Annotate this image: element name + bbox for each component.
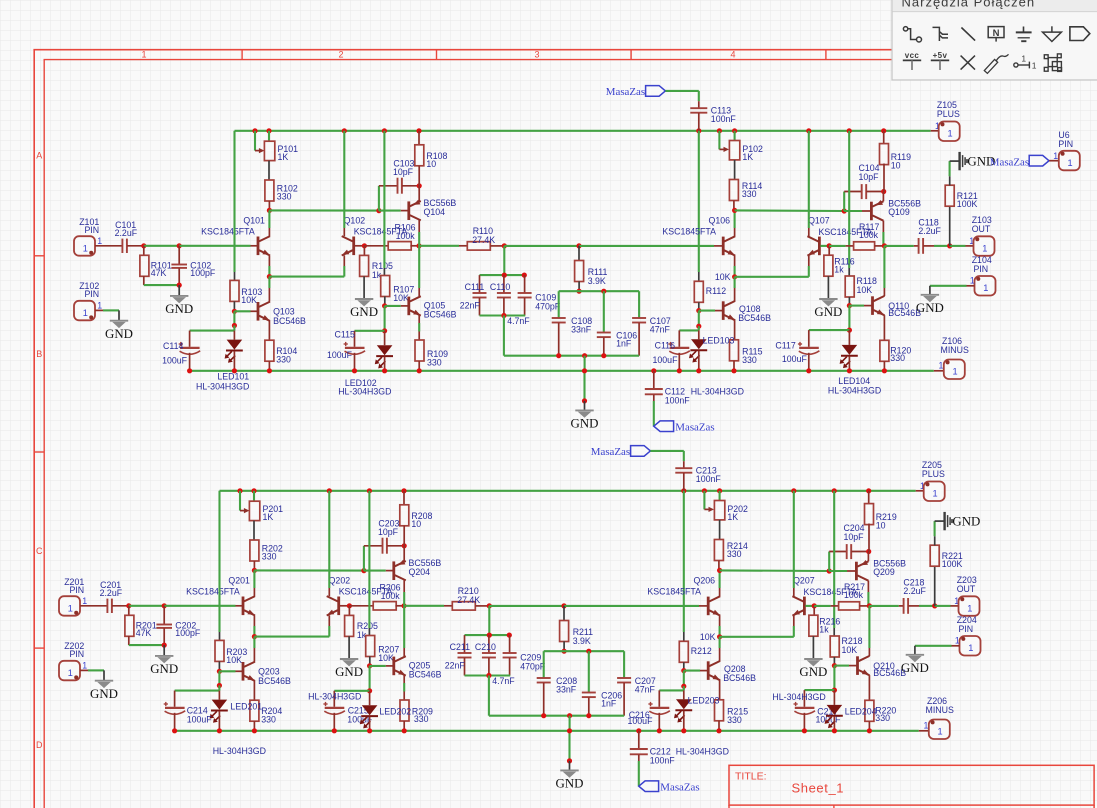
node base drive junction [252, 568, 257, 573]
svg-text:BC546B: BC546B [723, 673, 756, 683]
toolbar icon pin 1 [1014, 62, 1030, 69]
wire [403, 546, 405, 561]
resistor R121 100K [949, 206, 951, 246]
svg-text:4: 4 [730, 50, 735, 60]
capacitor C101 2.2uF [121, 239, 123, 253]
capacitor C117 100uF [808, 330, 810, 347]
wire [735, 276, 809, 278]
wire [967, 285, 975, 287]
node emitters junction [252, 634, 257, 639]
svg-text:GND: GND [916, 301, 944, 315]
potentiometer P202 1K [703, 491, 705, 510]
svg-text:C: C [36, 546, 43, 556]
net label MasaZas (bottom) [654, 421, 674, 432]
capacitor C216 100uF [658, 690, 660, 706]
toolbar icon wire [903, 27, 921, 42]
svg-text:1k: 1k [834, 265, 844, 275]
svg-text:BC546B: BC546B [738, 313, 771, 323]
wire [503, 246, 505, 275]
capacitor C208 33nF [543, 651, 545, 678]
svg-text:Q102: Q102 [344, 215, 366, 225]
svg-text:1: 1 [932, 489, 937, 499]
svg-text:BC546B: BC546B [258, 676, 291, 686]
svg-text:10pF: 10pF [393, 167, 414, 177]
resistor R102 330 [265, 180, 274, 201]
svg-text:2.2uF: 2.2uF [100, 588, 123, 598]
resistor R101 47K [143, 246, 145, 256]
svg-text:27.4K: 27.4K [472, 235, 495, 245]
svg-text:330: 330 [742, 355, 757, 365]
wire [867, 552, 869, 562]
svg-text:33nF: 33nF [571, 325, 592, 335]
svg-text:3.9K: 3.9K [573, 636, 591, 646]
capacitor C212 100nF [638, 731, 640, 749]
capacitor C206 1nF [588, 651, 590, 692]
wire [253, 521, 255, 541]
capacitor C118 2.2uF [884, 245, 913, 247]
svg-text:HL-304H3GD: HL-304H3GD [213, 746, 266, 756]
node input junction [141, 243, 146, 248]
connector Z202 PIN [59, 661, 80, 681]
wire [129, 605, 164, 607]
svg-text:1: 1 [1068, 158, 1073, 168]
node filter junction A [502, 243, 507, 248]
node output junction [947, 243, 952, 248]
svg-text:MasaZas: MasaZas [675, 422, 714, 434]
svg-text:1: 1 [955, 636, 960, 646]
node Q109 collector junction [867, 603, 872, 608]
wire LED101 anode [233, 311, 235, 325]
node Q108 base junction [696, 308, 701, 313]
wire [719, 588, 721, 596]
wire GND bottom rail [190, 370, 934, 372]
wire VCC top rail [220, 490, 916, 492]
wire VCC top rail [235, 130, 931, 132]
resistor R211 3.9K [563, 606, 565, 621]
svg-text:GND: GND [571, 417, 599, 431]
svg-text:330: 330 [261, 715, 276, 725]
wire [236, 605, 243, 607]
transistor Q102 KSC1845FTA [352, 237, 355, 256]
wire [489, 605, 564, 607]
wire [952, 645, 960, 647]
toolbar icon earth ground [1016, 27, 1032, 42]
wire [218, 491, 220, 632]
node Q110 base junction [832, 663, 837, 668]
wire [504, 245, 579, 247]
transistor Q105 BC546B [407, 297, 410, 316]
resistor R218 10K [830, 636, 839, 657]
capacitor C203 10pF [363, 546, 365, 571]
transistor Q202 KSC1845FTA [337, 597, 340, 616]
svg-text:PIN: PIN [1058, 139, 1073, 149]
resistor R117 100k [829, 245, 845, 247]
ground [355, 298, 373, 300]
svg-text:Q109: Q109 [888, 207, 910, 217]
svg-text:1K: 1K [278, 152, 289, 162]
svg-text:GND: GND [90, 687, 118, 701]
wire [269, 209, 379, 211]
svg-text:1nF: 1nF [601, 699, 617, 709]
wire [175, 690, 220, 692]
node collector load junction [416, 243, 421, 248]
ground [804, 658, 822, 660]
svg-text:1nF: 1nF [616, 339, 632, 349]
svg-text:Q104: Q104 [424, 207, 446, 217]
svg-text:4.7nF: 4.7nF [507, 316, 530, 326]
svg-text:27.4K: 27.4K [457, 595, 480, 605]
wire [355, 245, 362, 247]
capacitor C102 100pF [178, 246, 180, 264]
wire [659, 689, 684, 691]
wire [340, 605, 347, 607]
svg-text:330: 330 [277, 192, 292, 202]
ground [914, 646, 916, 655]
svg-text:10K: 10K [241, 295, 257, 305]
wire [809, 329, 850, 331]
svg-text:470pF: 470pF [520, 662, 546, 672]
ground [178, 285, 180, 296]
svg-text:1: 1 [83, 308, 88, 318]
svg-text:C210: C210 [475, 642, 496, 652]
wire [144, 245, 179, 247]
svg-text:1: 1 [1053, 151, 1058, 161]
svg-text:100K: 100K [957, 199, 978, 209]
svg-text:C115: C115 [335, 330, 355, 340]
resistor R106 100k [364, 245, 389, 247]
wire [80, 669, 88, 671]
capacitor C113 100nF [698, 101, 700, 108]
svg-text:HL-304H3GD: HL-304H3GD [338, 387, 391, 397]
ground (rotated) [935, 520, 944, 522]
svg-text:1: 1 [97, 301, 102, 311]
wire [735, 209, 845, 212]
capacitor C202 100pF [163, 606, 165, 624]
wire [369, 666, 371, 691]
svg-text:GND: GND [901, 661, 929, 675]
svg-text:Q101: Q101 [243, 215, 265, 225]
svg-text:1: 1 [982, 243, 987, 253]
wire [638, 761, 640, 786]
svg-text:MINUS: MINUS [941, 345, 969, 355]
svg-text:22nF: 22nF [460, 301, 481, 311]
ground [568, 731, 570, 761]
wire [190, 330, 235, 332]
svg-text:100k: 100k [396, 231, 416, 241]
resistor R210 27.4K [404, 605, 444, 607]
svg-text:22nF: 22nF [445, 661, 466, 671]
svg-text:GND: GND [165, 302, 193, 316]
svg-text:PIN: PIN [70, 649, 85, 659]
svg-text:2.2uF: 2.2uF [903, 586, 926, 596]
svg-text:BC546B: BC546B [409, 670, 442, 680]
svg-text:LED203: LED203 [688, 695, 720, 705]
net label MasaZas (top) [646, 86, 666, 97]
node emitters junction [267, 274, 272, 279]
wire [805, 605, 814, 607]
svg-text:1: 1 [82, 596, 87, 606]
resistor R110 27.4K [419, 245, 459, 247]
svg-text:C110: C110 [490, 282, 510, 292]
wire [95, 309, 103, 311]
svg-text:BC546B: BC546B [273, 316, 306, 326]
connector Z205 PLUS [916, 490, 924, 492]
wire [95, 245, 122, 247]
toolbar icon no-connect X [961, 56, 975, 70]
ground [340, 658, 358, 660]
svg-text:100K: 100K [942, 559, 963, 569]
svg-text:330: 330 [414, 714, 429, 724]
svg-text:C117: C117 [775, 341, 795, 351]
node filter junction B [562, 649, 567, 654]
svg-text:GND: GND [150, 662, 178, 676]
svg-text:100k: 100k [844, 590, 864, 600]
svg-text:2.2uF: 2.2uF [918, 226, 941, 236]
svg-text:LED103: LED103 [703, 335, 735, 345]
wire [465, 674, 511, 676]
svg-text:1: 1 [83, 243, 88, 253]
wire LED103 anode [683, 671, 685, 687]
transistor Q103 BC546B [257, 302, 260, 321]
ground [163, 645, 165, 656]
resistor R221 100K [934, 566, 936, 606]
toolbar icon probe pen [984, 54, 1008, 73]
connector Z104 PIN [975, 276, 996, 296]
capacitor C114 100uF [189, 331, 191, 347]
wire [268, 161, 270, 181]
svg-text:470pF: 470pF [535, 302, 561, 312]
resistor R205 1k [348, 606, 350, 616]
svg-text:100nF: 100nF [696, 474, 722, 484]
capacitor C103 10pF [378, 186, 380, 211]
transistor Q201 KSC1845FTA [242, 597, 245, 616]
svg-text:1: 1 [970, 276, 975, 286]
wire [127, 245, 144, 247]
svg-text:OUT: OUT [972, 224, 991, 234]
svg-text:D: D [36, 740, 43, 750]
svg-text:1K: 1K [742, 152, 753, 162]
svg-text:PLUS: PLUS [937, 109, 960, 119]
svg-text:10K: 10K [378, 653, 394, 663]
svg-text:1: 1 [968, 643, 973, 653]
diode LED101 HL-304H3GD [233, 331, 235, 340]
resistor R120 330 [880, 340, 889, 361]
resistor R207 10K [366, 636, 375, 657]
svg-text:OUT: OUT [957, 584, 976, 594]
svg-text:100k: 100k [859, 230, 879, 240]
toolbar icon supply arrow [1043, 26, 1062, 41]
resistor R112 10K [694, 281, 703, 302]
svg-text:Q201: Q201 [228, 575, 250, 585]
svg-text:MasaZas: MasaZas [591, 446, 630, 458]
svg-text:4.7nF: 4.7nF [492, 676, 515, 686]
svg-text:100nF: 100nF [711, 114, 737, 124]
resistor R209 330 [403, 692, 405, 701]
resistor R107 10K [381, 276, 390, 297]
toolbar icon flag [1070, 27, 1090, 41]
wire [698, 131, 700, 246]
svg-text:GND: GND [105, 327, 133, 341]
wire [665, 90, 698, 92]
resistor R111 3.9K [578, 246, 580, 261]
svg-text:MasaZas: MasaZas [606, 86, 645, 98]
svg-text:vcc: vcc [905, 51, 920, 60]
resistor R116 1k [828, 246, 830, 256]
wire [251, 245, 258, 247]
wire GND bottom rail [175, 730, 919, 732]
connector U6 PIN [1049, 160, 1059, 162]
toolbar panel Narzedzia Polaczen [892, 0, 1097, 80]
resistor R119 10 [883, 131, 885, 145]
wire [734, 160, 736, 180]
connector Z101 PIN [74, 236, 95, 256]
svg-text:B: B [36, 349, 42, 359]
wire LED101 anode [218, 671, 220, 685]
wire [504, 355, 639, 357]
resistor R202 330 [250, 540, 259, 561]
wire [699, 310, 715, 312]
svg-text:2.2uF: 2.2uF [115, 228, 138, 238]
svg-text:10pF: 10pF [859, 172, 880, 182]
potentiometer P102 1K [718, 131, 720, 150]
capacitor C116 100uF [678, 330, 680, 346]
svg-text:PIN: PIN [974, 264, 989, 274]
wire [684, 670, 700, 672]
resistor R103 10K [230, 280, 239, 301]
wire [804, 689, 834, 691]
node right emitters junction [717, 634, 722, 639]
svg-text:Q107: Q107 [808, 215, 830, 225]
svg-text:GND: GND [556, 777, 584, 791]
connector Z103 OUT [950, 245, 966, 247]
svg-text:10pF: 10pF [844, 532, 865, 542]
resistor R212 10K [679, 641, 688, 662]
svg-text:10K: 10K [715, 272, 731, 282]
svg-text:1: 1 [82, 661, 87, 671]
resistor R115 330 [730, 340, 739, 361]
diode LED104 HL-304H3GD [848, 330, 850, 345]
svg-text:100nF: 100nF [665, 395, 691, 405]
node Q105 base junction [382, 303, 387, 308]
svg-text:TITLE:: TITLE: [735, 770, 767, 782]
svg-text:1: 1 [967, 603, 972, 613]
connector Z206 MINUS [919, 730, 929, 732]
svg-text:C114: C114 [163, 341, 183, 351]
node filter junction A [487, 603, 492, 608]
wire [254, 569, 364, 571]
wire [849, 305, 864, 307]
transistor Q207 KSC1845FTA [803, 597, 806, 616]
capacitor C109 470pF [524, 275, 526, 293]
capacitor C107 47nF [638, 291, 640, 318]
transistor Q204 BC556B [392, 561, 395, 580]
svg-text:10: 10 [411, 519, 421, 529]
svg-text:+5v: +5v [933, 51, 948, 60]
ground [583, 371, 585, 401]
svg-text:HL-304H3GD: HL-304H3GD [308, 692, 361, 702]
svg-text:100uF: 100uF [782, 354, 808, 364]
resistor R214 330 [714, 540, 723, 561]
wire [559, 290, 639, 292]
wire [679, 329, 699, 331]
title block [729, 765, 1094, 805]
svg-text:10K: 10K [842, 645, 858, 655]
svg-text:330: 330 [742, 189, 757, 199]
svg-text:C111: C111 [465, 282, 485, 292]
svg-text:10pF: 10pF [378, 527, 399, 537]
node Q109 base drive junction [717, 568, 722, 573]
svg-text:1: 1 [924, 721, 929, 731]
svg-text:330: 330 [276, 355, 291, 365]
capacitor C215 100uF [333, 691, 335, 707]
svg-text:330: 330 [890, 353, 905, 363]
wire [129, 644, 164, 646]
toolbar icon net label [988, 27, 1004, 42]
capacitor C209 470pF [509, 635, 511, 653]
svg-text:1: 1 [953, 367, 958, 377]
capacitor C104 10pF [843, 192, 845, 212]
resistor R208 10 [403, 491, 405, 505]
svg-text:1k: 1k [819, 625, 829, 635]
connector Z204 PIN [960, 636, 981, 656]
svg-text:10K: 10K [393, 293, 409, 303]
svg-text:10K: 10K [226, 655, 242, 665]
capacitor C211 22nF [464, 635, 466, 653]
diode LED202 HL-304H3GD [369, 691, 371, 705]
wire [418, 186, 420, 201]
wire [370, 665, 386, 667]
svg-text:MINUS: MINUS [926, 705, 954, 715]
svg-text:47nF: 47nF [650, 325, 671, 335]
capacitor C106 1nF [603, 291, 605, 332]
resistor R220 330 [865, 700, 874, 721]
connector Z106 MINUS [934, 370, 944, 372]
svg-text:HL-304H3GD: HL-304H3GD [828, 385, 881, 395]
resistor R219 10 [868, 491, 870, 505]
wire [80, 605, 107, 607]
svg-text:1: 1 [938, 727, 943, 737]
resistor R203 10K [215, 640, 224, 661]
svg-text:47K: 47K [136, 628, 152, 638]
capacitor C110 4.7nF [503, 275, 505, 293]
transistor Q108 BC546B [722, 301, 725, 320]
wire [882, 192, 884, 202]
node Q103 base junction [232, 309, 237, 314]
svg-text:KSC1845FTA: KSC1845FTA [662, 227, 716, 237]
wire [480, 314, 526, 316]
wire [653, 401, 655, 426]
connector Z201 PIN [59, 596, 80, 616]
resistor R105 1k [363, 246, 365, 256]
transistor Q110 BC546B [871, 296, 874, 315]
wire [820, 245, 829, 247]
wire [269, 276, 344, 278]
svg-text:100k: 100k [381, 591, 401, 601]
svg-text:R112: R112 [706, 286, 726, 296]
svg-text:PIN: PIN [85, 289, 100, 299]
svg-text:1: 1 [97, 236, 102, 246]
transistor Q209 BC556B [855, 562, 858, 581]
svg-text:R212: R212 [691, 646, 712, 656]
svg-text:GND: GND [350, 305, 378, 319]
svg-text:47nF: 47nF [635, 685, 656, 695]
svg-text:100pF: 100pF [190, 268, 216, 278]
wire [385, 305, 401, 307]
node input junction [126, 603, 131, 608]
svg-text:Sheet_1: Sheet_1 [792, 781, 845, 796]
diode LED102 HL-304H3GD [384, 331, 386, 345]
svg-text:GND: GND [335, 665, 363, 679]
